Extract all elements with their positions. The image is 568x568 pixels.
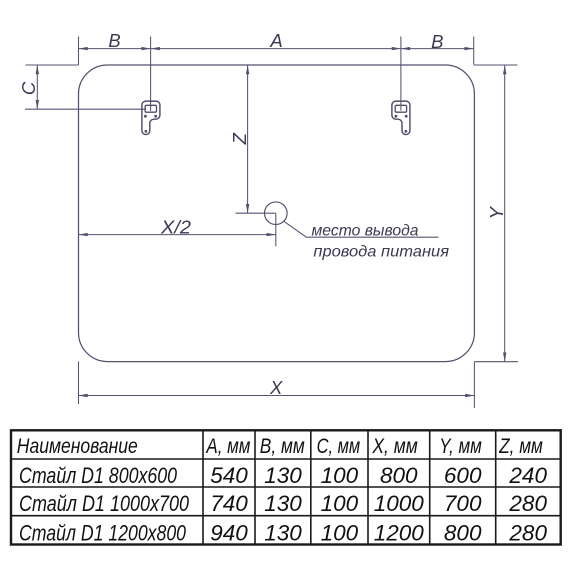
wire: X extension left — [78, 362, 80, 405]
svg-text:100: 100 — [321, 463, 359, 488]
svg-text:130: 130 — [264, 491, 302, 516]
arrows Z — [246, 65, 249, 74]
wire: Y extension top — [474, 64, 518, 66]
svg-text:X/2: X/2 — [160, 217, 192, 238]
svg-text:240: 240 — [508, 463, 547, 488]
circle: power cable outlet — [265, 202, 288, 225]
arrows X — [79, 394, 88, 397]
svg-text:600: 600 — [444, 463, 482, 488]
svg-text:X: X — [269, 377, 283, 398]
svg-text:1000: 1000 — [374, 491, 425, 516]
arrow B left at x=78.5 — [79, 47, 88, 50]
wire: X extension right — [473, 362, 475, 408]
svg-text:Y, мм: Y, мм — [439, 435, 482, 458]
svg-text:место вывода: место вывода — [312, 223, 419, 240]
dimension arrowheads — [36, 47, 507, 397]
wire: right extension line for B — [473, 37, 475, 65]
table grid — [11, 430, 561, 544]
arrows Y — [503, 65, 506, 74]
svg-text:A, мм: A, мм — [205, 435, 251, 458]
svg-text:C: C — [18, 81, 39, 95]
bracket left — [142, 101, 160, 134]
svg-text:Z, мм: Z, мм — [498, 435, 543, 458]
wire: left extension line for B — [78, 37, 80, 66]
svg-text:X, мм: X, мм — [372, 435, 418, 458]
wire: left bracket centerline — [150, 37, 152, 112]
svg-text:130: 130 — [264, 521, 302, 546]
wire: X/2 extension below circle — [275, 213, 277, 246]
dimension line Z — [247, 65, 249, 213]
leader note text — [312, 223, 450, 261]
svg-text:провода питания: провода питания — [313, 244, 449, 261]
table row 2 — [19, 491, 547, 516]
dimension line Y — [504, 65, 506, 362]
dimension labels — [18, 30, 507, 398]
dimension line C — [36, 65, 38, 109]
svg-text:A: A — [269, 30, 282, 51]
arrow A right / B left at x=400.9 — [392, 47, 401, 50]
table row lines — [11, 458, 561, 460]
table column lines — [202, 430, 204, 544]
svg-text:740: 740 — [210, 491, 248, 516]
svg-text:Z: Z — [229, 132, 250, 145]
svg-text:Стайл D1 1000x700: Стайл D1 1000x700 — [19, 491, 189, 516]
table outer border — [11, 430, 561, 544]
svg-text:800: 800 — [380, 463, 418, 488]
arrow B right / A left at x=150.6 — [141, 47, 150, 50]
svg-text:C, мм: C, мм — [317, 435, 361, 458]
svg-text:940: 940 — [210, 521, 248, 546]
arrows X/2 — [79, 233, 88, 236]
svg-text:1200: 1200 — [374, 521, 425, 546]
arrow B right at x=473.7 — [465, 47, 474, 50]
leader line to power outlet — [284, 221, 439, 237]
svg-text:280: 280 — [508, 521, 547, 546]
wire: Y extension bottom — [474, 361, 518, 363]
wire: C extension bottom — [25, 108, 146, 110]
svg-text:Наименование: Наименование — [17, 435, 138, 458]
svg-text:800: 800 — [444, 521, 482, 546]
svg-text:130: 130 — [264, 463, 302, 488]
dimension line B-A-B — [79, 48, 474, 50]
wire: C extension top — [26, 64, 79, 66]
svg-text:B, мм: B, мм — [260, 435, 305, 458]
dimension line X/2 — [79, 234, 276, 236]
svg-text:Стайл D1 800x600: Стайл D1 800x600 — [19, 463, 177, 488]
table header text — [17, 435, 543, 458]
bracket right — [392, 101, 410, 134]
table row 3 — [19, 521, 547, 546]
svg-text:Y: Y — [486, 205, 507, 219]
svg-text:100: 100 — [321, 491, 359, 516]
mirror body outline — [79, 65, 475, 362]
svg-text:540: 540 — [210, 463, 248, 488]
arrows C — [36, 65, 39, 74]
svg-text:Стайл D1 1200x800: Стайл D1 1200x800 — [19, 521, 186, 546]
svg-text:B: B — [108, 30, 120, 51]
svg-text:700: 700 — [444, 491, 482, 516]
svg-text:100: 100 — [321, 521, 359, 546]
table row 1 — [19, 463, 547, 488]
svg-text:B: B — [431, 31, 443, 52]
dimension line X — [79, 395, 475, 397]
wire: Z bottom reference to circle center — [236, 212, 276, 214]
svg-text:280: 280 — [508, 491, 547, 516]
wire: right bracket centerline — [400, 37, 402, 111]
